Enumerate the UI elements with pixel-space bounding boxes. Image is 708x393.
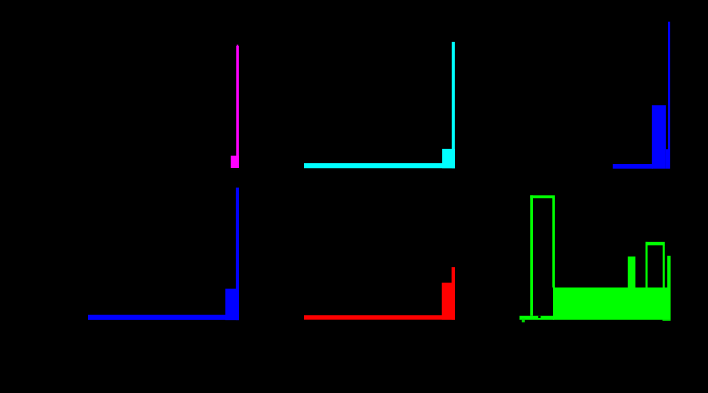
red histogram: zero baseline (304, 315, 455, 320)
green histogram: zero baseline under hollow bar (520, 316, 555, 320)
green histogram: solid block (553, 288, 671, 320)
red histogram: short spike (452, 267, 455, 320)
magenta histogram: tall spike (236, 46, 239, 168)
cyan histogram: tall spike (452, 42, 455, 168)
cyan histogram: low bin block (442, 149, 455, 168)
green histogram: second hollow bar left edge (646, 242, 648, 288)
red histogram: low bin block (442, 283, 455, 320)
green histogram: tall hollow bar left edge (530, 195, 533, 315)
top-right blue histogram: main filled bin (652, 105, 666, 169)
green histogram: small solid bar (628, 257, 636, 288)
bottom-left blue histogram: zero baseline (88, 315, 239, 320)
bottom-left blue histogram: low bin block (225, 289, 239, 320)
magenta histogram: low bin block (231, 156, 239, 168)
magenta histogram: spike tip (237, 45, 239, 47)
top-right blue histogram: tall thin spike (668, 22, 670, 169)
green histogram: small tick below baseline (522, 319, 525, 323)
green histogram: tall hollow bar right edge (552, 198, 555, 288)
top-right blue histogram: middle short bin (666, 149, 668, 169)
axis tick notch over green baseline (538, 316, 540, 318)
bottom-left blue histogram: tall spike (236, 188, 239, 321)
cyan histogram: zero baseline (304, 163, 455, 168)
top-right blue histogram: zero baseline (613, 164, 653, 169)
green histogram: block bottom-right nub (663, 320, 671, 321)
green histogram: second hollow bar right edge (663, 245, 665, 288)
green histogram: second hollow bar top edge (646, 242, 665, 245)
green histogram: right thin spike (667, 256, 670, 288)
green histogram: tall hollow bar top edge (530, 195, 555, 198)
